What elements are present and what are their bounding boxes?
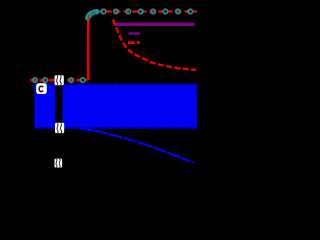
blue band right segment dotted bottom edge	[63, 127, 198, 129]
blue band right segment (occupied states, right of break)	[63, 85, 198, 127]
teal marker cluster at bend	[88, 12, 97, 20]
label c box	[36, 83, 47, 94]
red vertical step line	[87, 20, 90, 80]
teal circle markers on lower level	[33, 78, 85, 83]
blue diagonal band-bottom line	[79, 128, 190, 161]
short purple level line	[129, 32, 141, 34]
blue band left segment dotted bottom edge	[35, 127, 56, 129]
axis break symbol (bottom)	[55, 159, 63, 168]
red descending image-potential curve (dashed)	[113, 20, 196, 70]
blue band left segment (occupied states, left of break)	[35, 85, 56, 127]
short red dashed level	[128, 41, 135, 44]
axis break symbol (middle, at band bottom)	[55, 123, 64, 133]
long purple level line	[115, 23, 195, 26]
blue diagonal line dashed tail	[192, 161, 194, 164]
blue band left segment dotted top edge	[35, 83, 56, 85]
red lower dashed level line (left)	[30, 79, 87, 82]
blue band right segment dotted top edge	[63, 83, 198, 85]
axis break symbol (top, over dashed line)	[55, 75, 64, 85]
teal circle markers on top level	[101, 9, 192, 14]
red bend at top of step	[88, 12, 98, 23]
red top dashed level line	[98, 10, 198, 12]
